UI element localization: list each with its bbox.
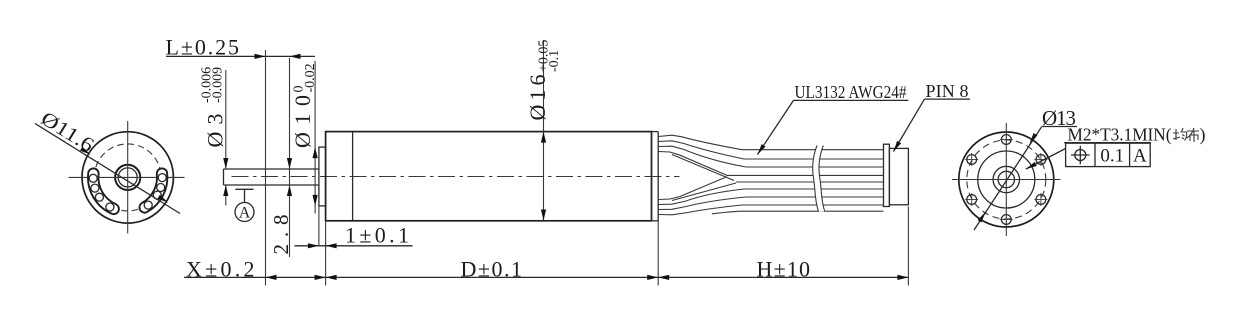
- svg-text:PIN 8: PIN 8: [926, 81, 969, 101]
- dimension Ø16 line: [543, 40, 545, 221]
- label Ø16 with tolerance: [525, 40, 562, 121]
- rear view M2 tapped holes: [1001, 135, 1011, 145]
- CJK 布: [1187, 128, 1199, 142]
- svg-text:UL3132 AWG24#: UL3132 AWG24#: [795, 82, 907, 102]
- svg-text:X±0.2: X±0.2: [186, 256, 255, 281]
- label Ø10 with tolerance: [290, 63, 318, 148]
- svg-text:2.8: 2.8: [269, 215, 293, 255]
- flange (Ø10 boss): [319, 147, 326, 206]
- lead wires bottom group: [659, 177, 728, 200]
- feature control frame: [1066, 143, 1151, 166]
- extension + 2.8 dimension line: [289, 58, 291, 257]
- cable bundle lines: [742, 149, 884, 151]
- front view vertical centerline: [127, 121, 129, 234]
- connector body PIN 8: [889, 148, 908, 204]
- cable break mark: [813, 146, 825, 212]
- front view left arc slot: [88, 168, 119, 214]
- front view right arc slot: [139, 168, 167, 212]
- datum A symbol: [235, 188, 253, 190]
- lead wires top group: [659, 135, 743, 150]
- body end cap: [657, 132, 659, 221]
- bottom dimension line: [184, 276, 908, 278]
- dimension leader Ø11.6: [35, 124, 180, 214]
- rear view inner ring: [978, 151, 1035, 208]
- extension line connector end: [907, 207, 909, 286]
- connector ferrule: [884, 144, 890, 206]
- svg-text:-0.009: -0.009: [211, 67, 226, 103]
- svg-text:D±0.1: D±0.1: [461, 256, 523, 281]
- extension line body front: [325, 221, 327, 286]
- svg-text:-0.1: -0.1: [547, 50, 562, 72]
- rear view outer circle: [959, 132, 1054, 227]
- front view bolt circle (dashed): [94, 144, 161, 211]
- flange extension line: [318, 207, 320, 247]
- CJK 均: [1173, 128, 1187, 141]
- svg-text:H±10: H±10: [757, 256, 811, 281]
- rear view crosshairs: [1005, 123, 1007, 236]
- front view hub inner circle: [118, 168, 137, 187]
- right slot holes: [158, 174, 166, 182]
- shaft (Ø3): [224, 169, 320, 185]
- svg-text:-0.02: -0.02: [303, 63, 318, 92]
- svg-text:): ): [1200, 125, 1206, 146]
- svg-text:Ø16: Ø16: [525, 75, 550, 121]
- svg-text:0.1: 0.1: [1100, 146, 1124, 167]
- motor body (Ø16): [326, 132, 652, 221]
- rear view hub circles: [993, 166, 1019, 192]
- svg-text:A: A: [239, 205, 251, 222]
- svg-text:Ø10: Ø10: [290, 95, 315, 148]
- label Ø3 with tolerance: [200, 67, 228, 148]
- front view horizontal centerline: [69, 176, 185, 178]
- side view centerline: [232, 176, 680, 178]
- svg-text:A: A: [1133, 146, 1147, 167]
- dimension Ø13 leader: [974, 127, 1042, 230]
- front view outer circle: [82, 132, 173, 223]
- svg-text:1±0.1: 1±0.1: [345, 223, 409, 248]
- dimension Ø3 line: [225, 70, 227, 169]
- body inner seam line: [352, 132, 354, 221]
- rear view bolt circle (dashed): [967, 140, 1046, 219]
- dimension Ø10 line: [314, 61, 316, 214]
- position tolerance symbol: [1075, 150, 1086, 161]
- left slot holes: [89, 174, 97, 182]
- extension line body rear: [657, 221, 659, 286]
- extension line (L left / X left): [265, 50, 267, 286]
- front view hub outer circle: [115, 165, 140, 190]
- FCF leader: [1026, 149, 1066, 170]
